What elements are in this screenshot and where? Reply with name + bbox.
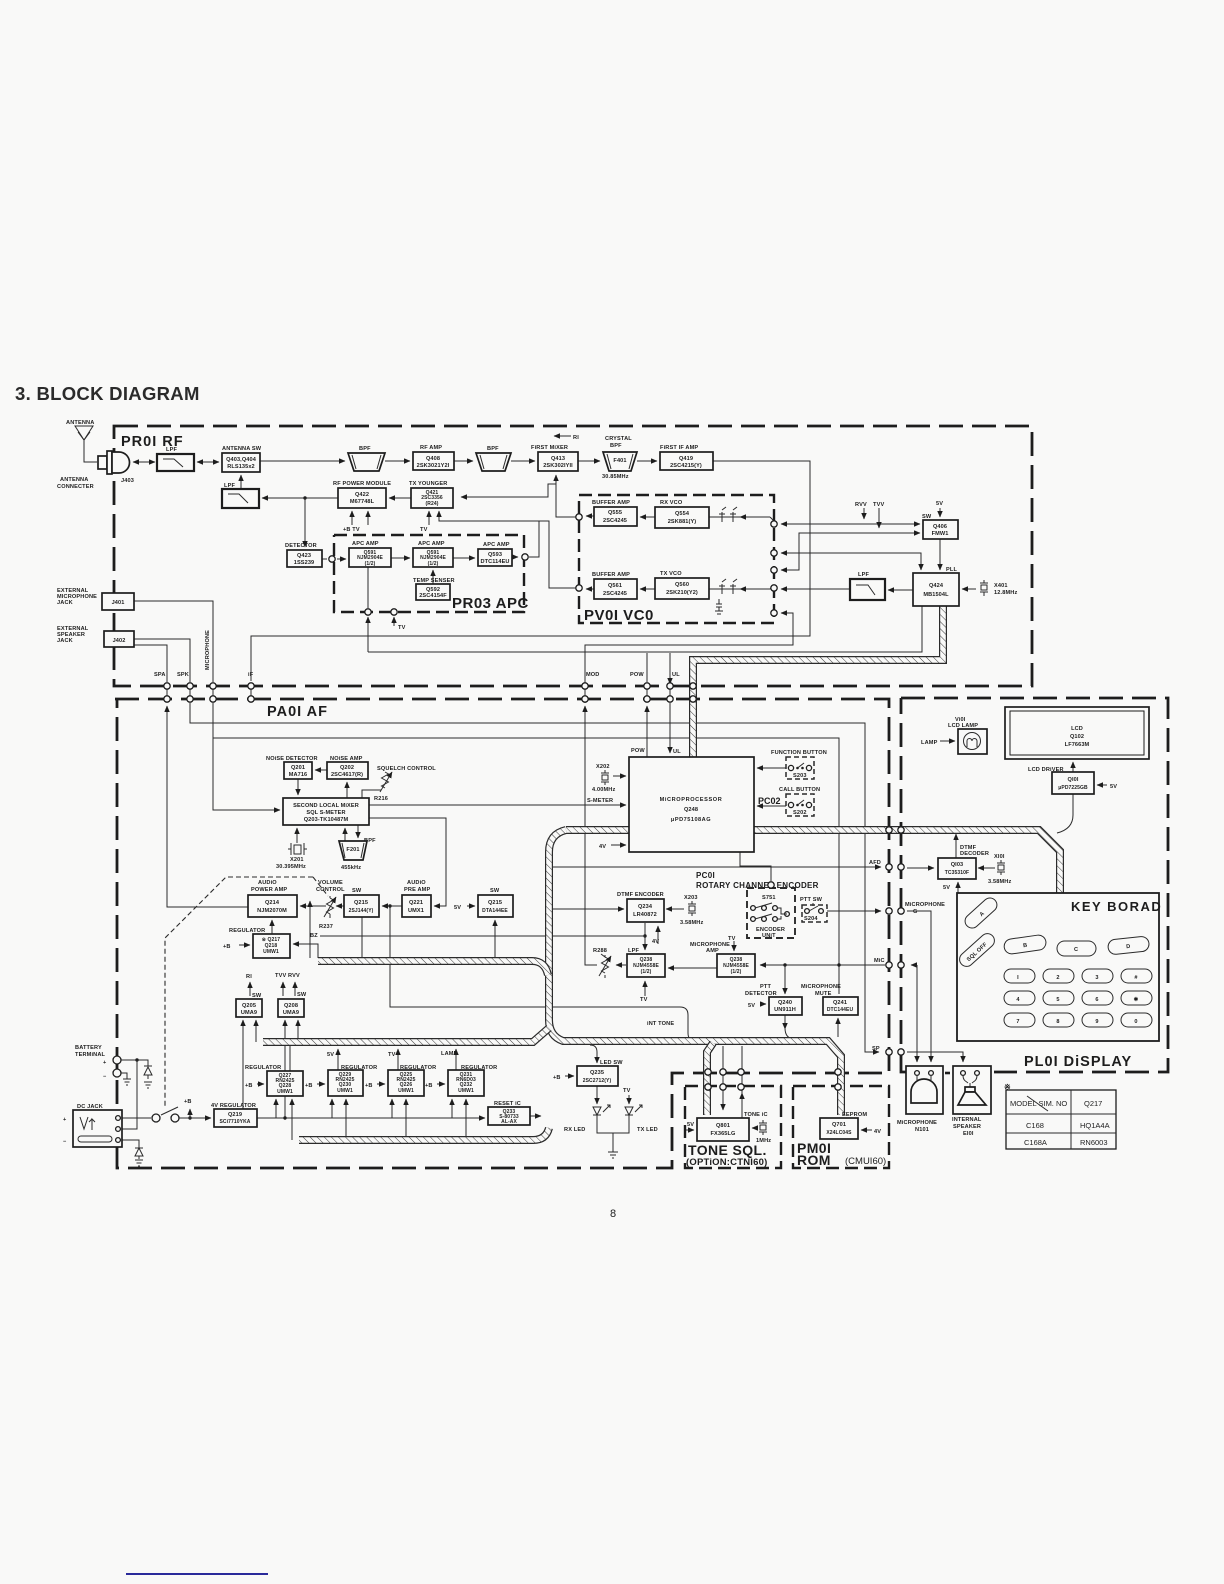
svg-text:DTA144EE: DTA144EE bbox=[482, 908, 508, 914]
svg-text:NOiSE AMP: NOiSE AMP bbox=[330, 756, 363, 762]
wire APC control: border node to Q424, POW and UL taps bbox=[367, 617, 369, 652]
wire RFamp-BPF2 bbox=[454, 460, 473, 462]
wire X203 to Q234 bbox=[666, 908, 684, 910]
module PV01 VCO dashed border bbox=[579, 495, 774, 623]
wire mixer to F201 bbox=[357, 825, 359, 838]
svg-text:LPF: LPF bbox=[858, 572, 869, 578]
svg-text:(1/2): (1/2) bbox=[365, 561, 376, 567]
wire Q554-Q555 bbox=[640, 516, 655, 518]
svg-text:J401: J401 bbox=[112, 600, 125, 606]
svg-text:S751: S751 bbox=[762, 895, 776, 901]
svg-text:D: D bbox=[1126, 944, 1131, 950]
varactor pair TX bbox=[719, 579, 737, 594]
svg-text:BUFFER AMP: BUFFER AMP bbox=[592, 500, 630, 506]
TX younger Q421 bbox=[409, 481, 453, 508]
crystal 1MHz bbox=[756, 1120, 771, 1144]
wire TVV RVV out Q208 bbox=[282, 982, 284, 996]
reset IC Q233 bbox=[488, 1101, 530, 1125]
svg-text:MiCROPHONE: MiCROPHONE bbox=[801, 984, 841, 990]
svg-text:UMW1: UMW1 bbox=[263, 949, 279, 955]
svg-text:2SC4245: 2SC4245 bbox=[603, 591, 627, 597]
wire Q560-Q561 bbox=[640, 588, 655, 590]
svg-text:PL0I DiSPLAY: PL0I DiSPLAY bbox=[1024, 1054, 1132, 1070]
wire 5V to Q801 bbox=[686, 1129, 694, 1131]
svg-text:Q593: Q593 bbox=[488, 552, 502, 558]
svg-text:QI03: QI03 bbox=[951, 862, 964, 868]
wire uP to rotary encoder bbox=[740, 852, 771, 881]
svg-text:LED SW: LED SW bbox=[600, 1060, 623, 1066]
wire Q238b to Q238a bbox=[668, 967, 717, 969]
svg-text:+B: +B bbox=[425, 1083, 433, 1089]
svg-text:TC35310F: TC35310F bbox=[945, 870, 969, 876]
SW Q215 DTA144EE bbox=[478, 888, 513, 917]
wire Q229 5V output bbox=[337, 1049, 339, 1070]
wire Q233 reset to bus bbox=[530, 1115, 541, 1117]
svg-text:+B: +B bbox=[184, 1099, 192, 1105]
SW Q215 2SJ144 bbox=[344, 888, 379, 917]
svg-text:C168: C168 bbox=[1026, 1121, 1044, 1130]
svg-text:2SK3021Y2I: 2SK3021Y2I bbox=[417, 463, 450, 469]
svg-text:EI0I: EI0I bbox=[963, 1131, 974, 1137]
svg-text:SQL S-METER: SQL S-METER bbox=[306, 810, 345, 816]
call button S202 PC02 bbox=[758, 787, 820, 816]
crystal X202 bbox=[592, 764, 615, 793]
svg-text:Q424: Q424 bbox=[929, 583, 944, 589]
svg-text:RVV: RVV bbox=[855, 502, 867, 508]
svg-text:HQ1A4A: HQ1A4A bbox=[1080, 1121, 1110, 1130]
wire X202 to microprocessor bbox=[613, 775, 626, 777]
squelch control R216 bbox=[374, 766, 436, 802]
svg-text:3.58MHz: 3.58MHz bbox=[680, 920, 703, 926]
svg-text:(1/2): (1/2) bbox=[731, 969, 742, 975]
svg-text:2SC4154F: 2SC4154F bbox=[419, 593, 447, 599]
wire S-METER to microprocessor bbox=[369, 804, 626, 806]
svg-text:+B: +B bbox=[365, 1083, 373, 1089]
svg-text:LCD: LCD bbox=[1071, 726, 1083, 732]
svg-text:Q555: Q555 bbox=[608, 510, 622, 516]
RX LED bbox=[593, 1105, 610, 1122]
svg-text:SP: SP bbox=[872, 1046, 880, 1052]
svg-text:Q208: Q208 bbox=[284, 1003, 298, 1009]
wire IF: Q419 out down to AF bbox=[251, 461, 810, 681]
svg-text:SECOND LOCAL MiXER: SECOND LOCAL MiXER bbox=[293, 803, 359, 809]
wire Q101 to LCD bbox=[1072, 762, 1074, 794]
svg-text:S202: S202 bbox=[793, 810, 807, 816]
bus regulator bottom rail bbox=[299, 1128, 549, 1140]
svg-text:+B TV: +B TV bbox=[343, 527, 360, 533]
wire bus to Q101 bbox=[1057, 794, 1073, 833]
wire 5V to Q215 DTA bbox=[467, 905, 475, 907]
svg-text:4.00MHz: 4.00MHz bbox=[592, 787, 615, 793]
svg-text:5V: 5V bbox=[748, 1003, 755, 1009]
wire MOD column down to R288 bbox=[585, 706, 597, 965]
svg-text:RI: RI bbox=[246, 974, 252, 980]
svg-text:R288: R288 bbox=[593, 948, 607, 954]
regulator Q225 bbox=[388, 1065, 436, 1096]
svg-text:CONNECTER: CONNECTER bbox=[57, 484, 94, 490]
wire Q229 bottom risers bbox=[331, 1099, 333, 1118]
wire mixer injection from VCO buffer bbox=[556, 475, 576, 517]
dash between mic and speaker bbox=[945, 1072, 950, 1075]
node +B TV under Q422 bbox=[351, 511, 353, 525]
switch Q406 bbox=[923, 520, 958, 539]
svg-text:UMW1: UMW1 bbox=[398, 1088, 414, 1094]
wire antSW-BPF1 bbox=[260, 460, 345, 462]
wire Q238a to R288 bbox=[616, 964, 626, 966]
wire tone IC output up to bus bbox=[741, 1093, 743, 1118]
bus PLL to microprocessor (hatched) bbox=[693, 606, 943, 757]
svg-text:Q214: Q214 bbox=[265, 900, 280, 906]
wire RX VCO varactors bbox=[709, 516, 770, 518]
svg-text:RX VCO: RX VCO bbox=[660, 500, 683, 506]
svg-text:I: I bbox=[1017, 975, 1019, 981]
svg-text:SPK: SPK bbox=[177, 672, 189, 678]
wire SPA to audio power amp bbox=[167, 706, 248, 907]
svg-text:PC0I: PC0I bbox=[696, 871, 715, 880]
svg-text:PV0I VC0: PV0I VC0 bbox=[584, 607, 654, 624]
antenna bbox=[66, 420, 94, 452]
wire Q234 to node BZ bbox=[644, 923, 646, 936]
svg-text:μPD7225GB: μPD7225GB bbox=[1058, 785, 1088, 791]
wire function button to uP bbox=[757, 767, 786, 769]
svg-text:4V: 4V bbox=[599, 844, 606, 850]
LPF3 bbox=[850, 572, 885, 600]
svg-text:PLL: PLL bbox=[946, 567, 957, 573]
wire +B to Q225 bbox=[377, 1083, 385, 1085]
node dot Q238b-Q240 bbox=[783, 963, 786, 966]
svg-text:DTC144EU: DTC144EU bbox=[827, 1007, 854, 1013]
buffer amp Q561 bbox=[592, 572, 637, 599]
wire connector-LPF bbox=[133, 461, 155, 463]
svg-text:DTC114EU: DTC114EU bbox=[480, 559, 509, 565]
svg-text:455kHz: 455kHz bbox=[341, 865, 361, 871]
svg-text:CRYSTAL: CRYSTAL bbox=[605, 436, 632, 442]
svg-text:7: 7 bbox=[1016, 1019, 1019, 1025]
svg-text:TVV: TVV bbox=[873, 502, 884, 508]
junction rings VCO bbox=[576, 514, 777, 616]
APC amp Q591b bbox=[413, 541, 453, 567]
svg-text:DECODER: DECODER bbox=[960, 851, 989, 857]
svg-text:μPD75108AG: μPD75108AG bbox=[671, 817, 711, 823]
wire to detector Q423 bbox=[304, 498, 306, 547]
svg-text:2SC4617(R): 2SC4617(R) bbox=[331, 772, 363, 778]
wire bus to DTMF encoder Q234 bbox=[553, 908, 624, 910]
wire node to Q238a LPF bbox=[644, 936, 646, 950]
svg-text:SPA: SPA bbox=[154, 672, 166, 678]
first IF amp Q419 bbox=[660, 445, 713, 470]
svg-text:FiRST MiXER: FiRST MiXER bbox=[531, 445, 568, 451]
svg-text:MUTE: MUTE bbox=[815, 991, 832, 997]
wire DTA bottom to bus bbox=[494, 920, 496, 958]
wire +B to Q217 bbox=[239, 944, 250, 946]
svg-text:A: A bbox=[979, 911, 986, 918]
noise amp Q202 bbox=[327, 756, 368, 779]
wire R1 out Q205 bbox=[249, 982, 251, 996]
svg-text:RF POWER MODULE: RF POWER MODULE bbox=[333, 481, 391, 487]
svg-text:2: 2 bbox=[1056, 975, 1059, 981]
wire Q593 to APC node bbox=[512, 556, 518, 558]
node dot mic mute column bbox=[837, 963, 840, 966]
second local mixer Q203 bbox=[283, 798, 369, 825]
junction rings display edge bbox=[886, 827, 904, 1055]
wire microphone G to mic N101 right pin bbox=[907, 911, 931, 1062]
svg-text:TV: TV bbox=[388, 1052, 396, 1058]
svg-text:Q235: Q235 bbox=[590, 1070, 604, 1076]
varactor pair RX bbox=[719, 507, 737, 522]
svg-text:TX YOUNGER: TX YOUNGER bbox=[409, 481, 447, 487]
wire MIC jack column bbox=[134, 601, 213, 682]
wire TV to Q238b mic amp bbox=[733, 941, 735, 951]
node dot audio junction bbox=[388, 904, 391, 907]
svg-text:Q201: Q201 bbox=[291, 765, 305, 771]
wire MOD to VCO bbox=[585, 613, 793, 703]
wire Q208 bottom risers bbox=[284, 1020, 286, 1118]
svg-text:REGULATOR: REGULATOR bbox=[461, 1065, 497, 1071]
diode battery plus bbox=[144, 1063, 152, 1088]
svg-text:Q102: Q102 bbox=[1070, 734, 1084, 740]
PTT detector Q240 bbox=[745, 984, 802, 1015]
svg-text:3.58MHz: 3.58MHz bbox=[988, 879, 1011, 885]
svg-text:PA0I AF: PA0I AF bbox=[267, 704, 328, 720]
svg-text:PTT: PTT bbox=[760, 984, 771, 990]
wire battery plus bbox=[121, 1060, 148, 1063]
wire UL to microprocessor bbox=[669, 703, 671, 753]
wire +B rail bbox=[257, 1117, 485, 1119]
svg-text:X201: X201 bbox=[290, 857, 304, 863]
wire 4V to microprocessor bbox=[611, 844, 626, 846]
svg-text:PTT SW: PTT SW bbox=[800, 897, 823, 903]
4V regulator Q219 bbox=[211, 1103, 257, 1127]
svg-text:2SK210(Y2): 2SK210(Y2) bbox=[666, 590, 698, 596]
power switch bbox=[161, 1107, 178, 1115]
wire POW to microprocessor bbox=[646, 706, 648, 757]
junction rings APC bbox=[329, 554, 528, 615]
label PC01 rotary channel encoder bbox=[696, 871, 819, 890]
wire 5V to Q240 bbox=[761, 1003, 766, 1005]
key SQL OFF bbox=[957, 931, 998, 970]
wire Q424-LPF3 bbox=[888, 589, 913, 591]
wire TX VCO varactors bbox=[709, 588, 770, 590]
svg-text:2SK881(Y): 2SK881(Y) bbox=[668, 519, 697, 525]
PLL Q424 bbox=[913, 573, 959, 606]
svg-text:MICROPHONE: MICROPHONE bbox=[205, 630, 211, 670]
svg-text:S204: S204 bbox=[804, 916, 818, 922]
svg-text:LAMP: LAMP bbox=[921, 740, 938, 746]
buffer amp Q555 bbox=[592, 500, 637, 526]
svg-text:Q221: Q221 bbox=[409, 900, 423, 906]
svg-text:5V: 5V bbox=[943, 885, 950, 891]
svg-text:Q217: Q217 bbox=[1084, 1099, 1102, 1108]
svg-text:+: + bbox=[103, 1060, 107, 1066]
wire VCO node to Q406 line2 bbox=[781, 533, 920, 570]
wire Q231 bottom risers bbox=[451, 1099, 453, 1118]
svg-text:Q419: Q419 bbox=[679, 456, 693, 462]
wire F401-IF amp bbox=[637, 460, 657, 462]
svg-text:+B: +B bbox=[305, 1083, 313, 1089]
svg-text:AUDiO: AUDiO bbox=[258, 880, 277, 886]
crystal X101 bbox=[988, 854, 1011, 885]
svg-text:4V REGULATOR: 4V REGULATOR bbox=[211, 1103, 256, 1109]
node 5V to Q406 bbox=[939, 508, 941, 517]
svg-text:iNT TONE: iNT TONE bbox=[647, 1021, 674, 1027]
wire mixer to R216 squelch bbox=[362, 790, 381, 798]
svg-text:UMW1: UMW1 bbox=[337, 1088, 353, 1094]
svg-text:APC AMP: APC AMP bbox=[418, 541, 445, 547]
wire Q240 output to bus bbox=[784, 1015, 786, 1029]
svg-text:TX VCO: TX VCO bbox=[660, 571, 682, 577]
svg-text:UN911H: UN911H bbox=[774, 1007, 796, 1013]
wire TX VCO buffer to Q421 bbox=[439, 511, 576, 588]
svg-text:5: 5 bbox=[1056, 997, 1059, 1003]
svg-text:SPEAKER: SPEAKER bbox=[953, 1124, 981, 1130]
svg-text:G: G bbox=[913, 909, 918, 915]
R288 pot bbox=[593, 948, 611, 978]
svg-text:J403: J403 bbox=[121, 478, 134, 484]
svg-text:2SJ144(Y): 2SJ144(Y) bbox=[349, 908, 374, 914]
svg-text:C168A: C168A bbox=[1024, 1138, 1047, 1147]
node R1 bbox=[554, 435, 571, 437]
svg-text:2SC4245: 2SC4245 bbox=[603, 518, 627, 524]
wire MIC long run to mic mute bbox=[213, 738, 839, 994]
crystal X401 bbox=[980, 580, 1017, 596]
wire Q217 to Q214 bbox=[271, 920, 273, 934]
svg-text:LCD LAMP: LCD LAMP bbox=[948, 723, 978, 729]
svg-text:UNiT: UNiT bbox=[762, 933, 776, 939]
svg-text:−: − bbox=[103, 1074, 107, 1080]
svg-text:Q560: Q560 bbox=[675, 582, 689, 588]
svg-text:TONE iC: TONE iC bbox=[744, 1112, 768, 1118]
svg-text:TX LED: TX LED bbox=[637, 1127, 658, 1133]
svg-text:Q408: Q408 bbox=[426, 456, 440, 462]
svg-text:2SC4215(Y): 2SC4215(Y) bbox=[670, 463, 702, 469]
svg-text:MiCROPHONE: MiCROPHONE bbox=[905, 902, 945, 908]
svg-text:S-METER: S-METER bbox=[587, 798, 613, 804]
node dot BZ junction bbox=[643, 934, 646, 937]
svg-text:BATTERY: BATTERY bbox=[75, 1045, 102, 1051]
svg-text:4V: 4V bbox=[652, 939, 659, 945]
key B bbox=[1003, 934, 1047, 955]
svg-text:EEPROM: EEPROM bbox=[842, 1112, 867, 1118]
svg-text:MB1504L: MB1504L bbox=[923, 592, 949, 598]
svg-text:LPF: LPF bbox=[166, 447, 177, 453]
microphone amp Q238b bbox=[690, 942, 755, 977]
svg-text:30.395MHz: 30.395MHz bbox=[276, 864, 306, 870]
function button S203 bbox=[771, 750, 827, 779]
svg-text:※: ※ bbox=[1004, 1083, 1011, 1092]
svg-text:UL: UL bbox=[672, 672, 680, 678]
svg-text:3: 3 bbox=[1095, 975, 1098, 981]
svg-text:TV: TV bbox=[640, 997, 648, 1003]
battery terminal bbox=[75, 1045, 107, 1080]
wire VCO node2 to Q424 top bbox=[781, 553, 921, 570]
crystal X203 bbox=[680, 895, 703, 926]
APC amp Q593 bbox=[478, 542, 512, 566]
svg-text:ANTENNA: ANTENNA bbox=[60, 477, 88, 483]
wire X401 to Q424 bbox=[962, 588, 976, 590]
svg-text:8: 8 bbox=[1056, 1019, 1059, 1025]
svg-text:LR40872: LR40872 bbox=[633, 912, 657, 918]
svg-text:Q219: Q219 bbox=[228, 1112, 242, 1118]
wire +B to Q229 bbox=[317, 1083, 325, 1085]
wire Q235 to RX LED bbox=[596, 1086, 598, 1104]
LED SW Q235 bbox=[577, 1066, 618, 1086]
svg-text:SQUELCH CONTROL: SQUELCH CONTROL bbox=[377, 766, 436, 772]
svg-text:(OPTiON:CTNI60): (OPTiON:CTNI60) bbox=[686, 1157, 767, 1168]
svg-text:FiRST IF AMP: FiRST IF AMP bbox=[660, 445, 698, 451]
wire Q225 bottom risers bbox=[391, 1099, 393, 1118]
svg-text:FUNCTION BUTTON: FUNCTION BUTTON bbox=[771, 750, 827, 756]
bus branch tone sql bbox=[707, 1043, 713, 1115]
svg-text:Q234: Q234 bbox=[638, 904, 653, 910]
wire Q227 bottom risers bbox=[275, 1099, 277, 1118]
bus audio to vertical bbox=[318, 961, 548, 975]
svg-text:PC02: PC02 bbox=[758, 796, 781, 806]
SW Q208 bbox=[278, 992, 307, 1017]
svg-text:RX LED: RX LED bbox=[564, 1127, 585, 1133]
encoder unit S751 bbox=[747, 888, 795, 939]
wire PTT SW to microphone G bbox=[827, 910, 881, 912]
wire X101 to Q103 bbox=[978, 867, 995, 869]
svg-text:UMW1: UMW1 bbox=[277, 1089, 293, 1095]
regulator Q229 bbox=[328, 1065, 377, 1096]
svg-text:LPF: LPF bbox=[224, 483, 235, 489]
bus regulator top rail bbox=[263, 1028, 549, 1042]
svg-text:NJM2070M: NJM2070M bbox=[257, 908, 287, 914]
svg-text:3. BLOCK DIAGRAM: 3. BLOCK DIAGRAM bbox=[15, 383, 200, 404]
wire BPF1-RF amp bbox=[385, 460, 410, 462]
svg-text:SW: SW bbox=[352, 888, 362, 894]
svg-text:SW: SW bbox=[252, 993, 262, 999]
node TV on APC border bbox=[393, 617, 395, 626]
regulator Q217 Q218 bbox=[229, 928, 290, 958]
svg-text:5V: 5V bbox=[687, 1122, 694, 1128]
svg-text:B: B bbox=[1023, 943, 1028, 950]
wire antenna to connector bbox=[84, 440, 97, 462]
svg-text:TV: TV bbox=[623, 1088, 631, 1094]
svg-text:#: # bbox=[1134, 975, 1138, 981]
DTMF decoder Q103 bbox=[938, 845, 989, 879]
wire Q227 riser to bus bbox=[289, 1043, 291, 1071]
svg-text:iF: iF bbox=[248, 672, 254, 678]
svg-text:AUDiO: AUDiO bbox=[407, 880, 426, 886]
svg-text:5V: 5V bbox=[327, 1052, 334, 1058]
svg-text:TERMiNAL: TERMiNAL bbox=[75, 1052, 106, 1058]
svg-text:LF7663M: LF7663M bbox=[1065, 742, 1090, 748]
svg-text:RN6003: RN6003 bbox=[1080, 1138, 1108, 1147]
svg-text:Q248: Q248 bbox=[684, 807, 698, 813]
wire BPF2-mixer bbox=[511, 460, 535, 462]
svg-text:SW: SW bbox=[922, 514, 932, 520]
LCD lamp V101 bbox=[948, 717, 987, 754]
svg-text:TONE SQL.: TONE SQL. bbox=[688, 1142, 767, 1158]
svg-text:MA716: MA716 bbox=[289, 772, 308, 778]
svg-text:REGULATOR: REGULATOR bbox=[341, 1065, 377, 1071]
APC amp Q591a bbox=[349, 541, 391, 567]
model table bbox=[1006, 1090, 1116, 1149]
svg-text:APC AMP: APC AMP bbox=[483, 542, 510, 548]
wire LED SW +B bbox=[565, 1075, 574, 1077]
svg-text:6: 6 bbox=[1095, 997, 1098, 1003]
svg-text:Q701: Q701 bbox=[832, 1122, 846, 1128]
LCD driver Q101 bbox=[1028, 767, 1094, 794]
bus main vertical + uP horizontal bbox=[549, 830, 1060, 1115]
svg-text:REGULATOR: REGULATOR bbox=[400, 1065, 436, 1071]
svg-text:CALL BUTTON: CALL BUTTON bbox=[779, 787, 820, 793]
svg-text:8: 8 bbox=[610, 1208, 616, 1220]
svg-text:Q406: Q406 bbox=[933, 524, 947, 530]
svg-text:MiC: MiC bbox=[874, 958, 885, 964]
wire DC jack pin1 to switch bbox=[120, 1117, 151, 1119]
